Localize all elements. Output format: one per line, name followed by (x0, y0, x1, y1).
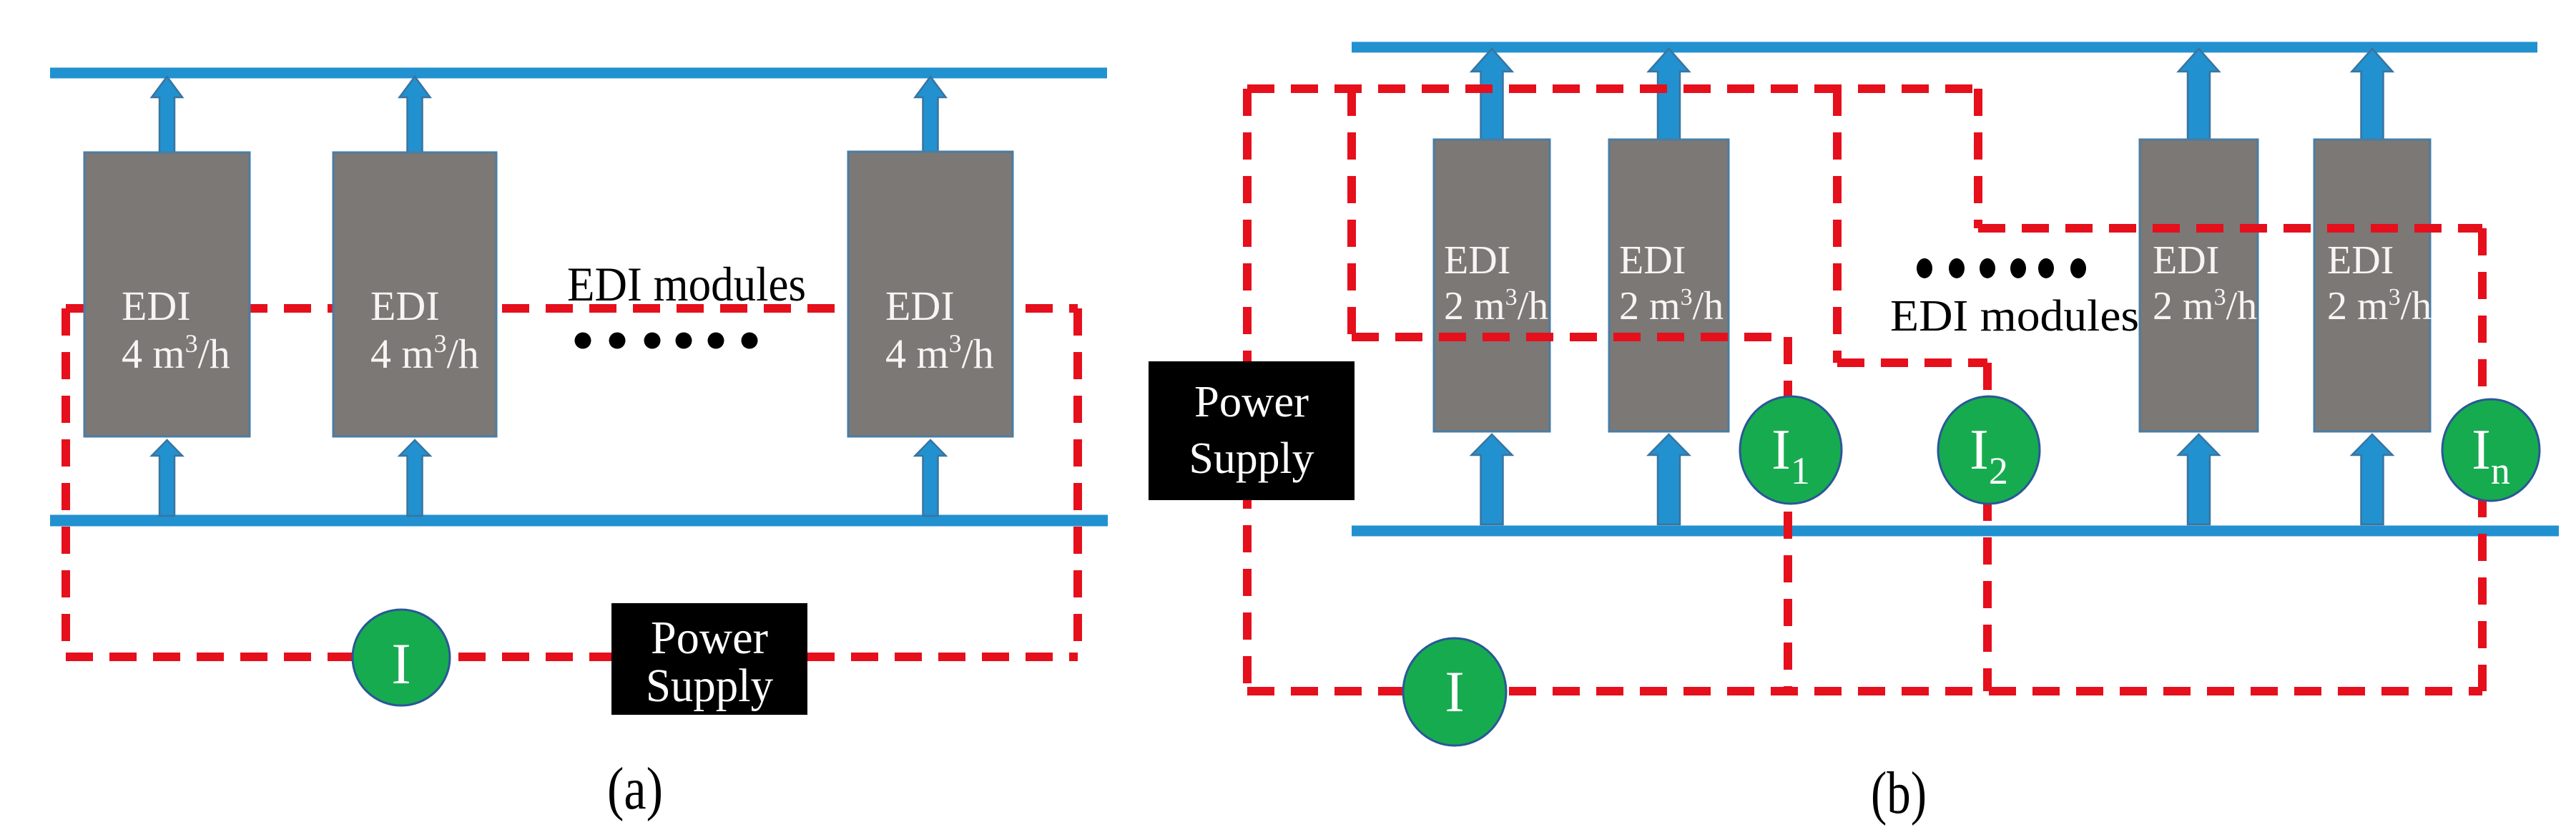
ammeter I (b) (1403, 638, 1506, 746)
svg-text:EDI: EDI (1444, 238, 1510, 283)
arrow: outlet module 1 (b) (1472, 49, 1513, 140)
arrow: outlet module 1 (a) (152, 77, 182, 153)
wire: drop to ammeter In (b) (2478, 228, 2487, 691)
ammeter I (a) (353, 610, 450, 705)
svg-text:EDI: EDI (885, 283, 955, 329)
svg-text:4 m3/h: 4 m3/h (370, 329, 479, 377)
wire: group1 bus through modules 1-2 (b) (1352, 333, 1788, 341)
label: power supply (b) (1189, 378, 1314, 483)
ellipsis dots (b) (1917, 258, 2086, 278)
svg-text:2 m3/h: 2 m3/h (2327, 284, 2432, 328)
wire: bottom feed water pipe (b) (1352, 526, 2559, 537)
arrow: outlet module 4 (b) (2352, 49, 2393, 140)
wire: red dashed right vertical (a) (1073, 308, 1082, 657)
svg-text:(a): (a) (607, 756, 663, 822)
arrow: inlet module 2 (b) (1648, 434, 1689, 524)
svg-text:EDI: EDI (122, 283, 191, 329)
svg-text:Power: Power (651, 612, 768, 664)
EDI module 2 (b) (1609, 140, 1729, 431)
wire: red dashed left vertical (a) (62, 308, 70, 657)
arrow: outlet module 2 (b) (1648, 49, 1689, 140)
svg-text:EDI: EDI (2327, 238, 2394, 283)
EDI module 3 (a) (848, 152, 1013, 436)
wire: group1 drop (b) (1347, 89, 1356, 337)
module labels (b) (1444, 238, 2432, 328)
wire: middle link (b) (1837, 358, 1987, 367)
arrow: inlet module 3 (a) (915, 440, 946, 516)
wire: bottom red return bus (b) (1247, 687, 2482, 695)
svg-text:EDI modules: EDI modules (567, 257, 806, 311)
arrow: inlet module 1 (a) (152, 440, 182, 516)
wire: red dashed horizontal bus (a) through modules (66, 304, 1078, 313)
EDI module 1 (a) (84, 152, 250, 436)
power supply (b) (1149, 361, 1355, 500)
wire: top product water pipe (b) (1352, 42, 2537, 53)
svg-text:4 m3/h: 4 m3/h (885, 329, 994, 377)
wire: drop to ammeter I1 (b) (1784, 337, 1792, 691)
wire: middle drop A (b) (1833, 89, 1842, 363)
wire: group2 drop (b) (1974, 89, 1982, 228)
arrow: outlet module 3 (a) (915, 77, 946, 153)
dot 1 (a) (575, 333, 591, 349)
wire: top red bus (b) (1247, 84, 1978, 93)
svg-text:EDI: EDI (1619, 238, 1686, 283)
wire: top product water pipe (a) (50, 68, 1107, 79)
wire: bottom feed water pipe (a) (50, 515, 1108, 527)
wire: PS vertical feed (b) (1243, 89, 1252, 691)
EDI module 2 (a) (333, 152, 496, 436)
label: power supply (a) (646, 612, 773, 712)
svg-text:(b): (b) (1871, 760, 1927, 826)
svg-text:Power: Power (1194, 378, 1309, 426)
wire: group2 bus through modules 3-4 (b) (1978, 224, 2482, 233)
arrow: inlet module 1 (b) (1472, 434, 1513, 524)
svg-text:EDI: EDI (370, 283, 440, 329)
ammeter I2 (b) (1938, 396, 2040, 504)
ammeter I1 (b) (1740, 396, 1842, 504)
svg-text:2 m3/h: 2 m3/h (1619, 284, 1724, 328)
arrow: inlet module 4 (b) (2352, 434, 2393, 524)
red dashed circuit (a) (66, 308, 1078, 657)
wire: red dashed bottom return (a) (66, 653, 1078, 661)
svg-text:EDI modules: EDI modules (1890, 292, 2139, 341)
ammeter In (b) (2442, 399, 2540, 501)
EDI module 4 (b) (2314, 140, 2430, 431)
power supply (a) (611, 603, 807, 715)
arrow: outlet module 3 (b) (2178, 49, 2219, 140)
svg-text:Supply: Supply (1189, 434, 1314, 483)
svg-text:4 m3/h: 4 m3/h (122, 329, 230, 377)
EDI module 3 (b) (2140, 140, 2258, 431)
svg-text:EDI: EDI (2153, 238, 2219, 283)
svg-text:2 m3/h: 2 m3/h (2153, 284, 2257, 328)
ellipsis dots (a) (575, 333, 758, 349)
arrow: inlet module 3 (b) (2178, 434, 2219, 524)
module labels (a) (122, 283, 994, 377)
arrow: outlet module 2 (a) (400, 77, 431, 153)
svg-text:Supply: Supply (646, 660, 773, 712)
wire: drop to ammeter I2 (b) (1983, 363, 1992, 691)
arrow: inlet module 2 (a) (400, 440, 431, 516)
svg-text:2 m3/h: 2 m3/h (1444, 284, 1548, 328)
svg-text:I: I (1445, 659, 1464, 724)
svg-text:I: I (391, 631, 411, 696)
EDI module 1 (b) (1434, 140, 1550, 431)
red dashed circuit (b), drawn over modules (1247, 89, 2482, 691)
